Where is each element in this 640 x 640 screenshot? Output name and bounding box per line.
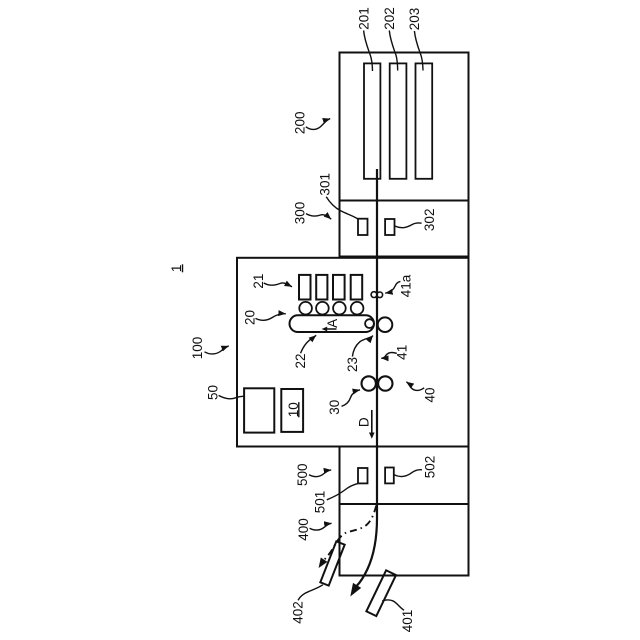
leader 202 <box>389 31 397 71</box>
tray 401 <box>366 570 396 616</box>
roller 30 <box>362 376 376 390</box>
wavy arrow 41 <box>381 353 397 359</box>
tray 201 <box>364 63 380 178</box>
print head 21b <box>316 275 327 300</box>
box 400 takeup unit <box>340 504 469 576</box>
svg-text:50: 50 <box>206 385 221 400</box>
svg-text:23: 23 <box>345 357 360 372</box>
svg-text:100: 100 <box>190 337 205 360</box>
arrow A head <box>322 327 328 332</box>
roller pair 41a right <box>377 292 383 298</box>
tray 402 <box>320 541 344 585</box>
wavy arrow 21 <box>264 283 292 287</box>
wavy arrow 500 <box>309 470 331 477</box>
leader 50 <box>219 395 245 398</box>
box 10 controller <box>281 389 303 432</box>
box 200 sheet feed unit <box>340 53 469 201</box>
box 50 <box>244 388 274 432</box>
label 1 <box>169 264 184 272</box>
box 300 buffer unit <box>340 201 469 257</box>
svg-text:200: 200 <box>293 112 308 135</box>
svg-text:41: 41 <box>395 345 410 360</box>
belt 20 capsule <box>290 315 375 332</box>
print head 21d <box>351 275 363 300</box>
svg-text:203: 203 <box>407 8 422 31</box>
box 100 printing unit <box>237 258 469 447</box>
wavy arrow 300 <box>306 214 331 220</box>
wavy arrow 30 <box>342 390 361 407</box>
sensor 301 <box>358 219 368 235</box>
svg-text:201: 201 <box>356 7 371 30</box>
dash-dot arrowhead <box>319 557 328 568</box>
svg-text:301: 301 <box>318 173 333 196</box>
svg-text:30: 30 <box>327 400 342 415</box>
head roller 2 <box>316 302 329 315</box>
head roller 1 <box>299 302 312 315</box>
wavy arrow 23 <box>352 336 373 357</box>
leader 402 <box>298 585 323 601</box>
label 10 <box>286 402 301 417</box>
tray 203 <box>416 63 433 178</box>
svg-text:500: 500 <box>295 463 310 486</box>
svg-text:41a: 41a <box>399 274 414 297</box>
web path line <box>357 169 377 586</box>
dash-dot path <box>324 506 376 560</box>
wavy arrow 200 <box>306 119 330 130</box>
wavy arrow 41a <box>385 281 400 293</box>
leader 201 <box>364 31 373 72</box>
svg-text:22: 22 <box>293 353 308 368</box>
sensor 302 <box>385 219 394 235</box>
roller 40 <box>378 376 392 390</box>
wavy arrow 20 <box>256 314 286 321</box>
sensor 502 <box>385 468 394 484</box>
print head 21a <box>299 275 311 300</box>
print head 21c <box>333 275 345 300</box>
web path arrowhead <box>350 583 361 597</box>
roller 41 <box>378 317 393 332</box>
box 500 buffer unit lower <box>340 447 469 505</box>
svg-text:400: 400 <box>296 518 311 541</box>
roller pair 41a left <box>371 292 377 298</box>
svg-text:402: 402 <box>290 601 305 624</box>
leader 203 <box>414 31 423 71</box>
svg-text:202: 202 <box>382 7 397 30</box>
svg-text:302: 302 <box>422 209 437 232</box>
arrow D shaft <box>371 410 373 433</box>
wavy arrow 22 <box>301 335 317 353</box>
arrow A shaft <box>327 328 337 330</box>
svg-text:D: D <box>357 417 372 427</box>
tray 202 <box>390 63 407 178</box>
leader 502 <box>394 470 422 477</box>
sensor 501 <box>358 468 368 483</box>
arrow D head <box>369 433 375 439</box>
leader 401 <box>382 600 404 610</box>
wavy arrow 100 <box>205 346 229 354</box>
roller 23 <box>365 319 374 328</box>
svg-text:20: 20 <box>243 310 258 325</box>
svg-text:21: 21 <box>251 274 266 289</box>
head roller 3 <box>333 302 346 315</box>
wavy arrow 400 <box>310 523 332 530</box>
wavy arrow 40 <box>406 382 424 391</box>
leader 301 <box>326 197 358 219</box>
svg-text:300: 300 <box>293 202 308 225</box>
svg-text:A: A <box>325 319 340 328</box>
leader 501 <box>327 484 358 500</box>
svg-text:40: 40 <box>423 387 438 402</box>
head roller 4 <box>351 302 364 315</box>
svg-text:502: 502 <box>423 456 438 479</box>
svg-text:401: 401 <box>400 610 415 633</box>
leader 302 <box>395 223 422 228</box>
svg-text:501: 501 <box>313 491 328 514</box>
